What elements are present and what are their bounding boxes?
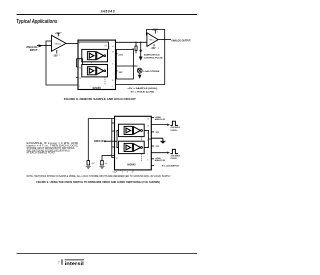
svg-text:IH5043: IH5043 (101, 9, 115, 13)
svg-text:1: 1 (79, 43, 80, 45)
svg-text:IH5043: IH5043 (127, 163, 136, 166)
node ANALOG INPUT label (26, 45, 38, 52)
pin numbers (U3) (116, 119, 150, 162)
svg-text:10: 10 (116, 158, 118, 160)
wire left rail (112, 119, 115, 158)
video out arrow (151, 138, 166, 144)
power +15V (U1) (55, 32, 62, 36)
footer intersil logo (65, 260, 84, 266)
svg-text:13: 13 (147, 126, 149, 128)
wire internal input routing (U2) (78, 42, 109, 49)
pin 14 wire to A1 (116, 41, 147, 43)
svg-text:HA51: HA51 (149, 38, 153, 41)
analog switch U2 IH5043 box (78, 40, 116, 89)
bottom pin row (U3) (113, 172, 134, 174)
svg-text:CONTROL PULSE: CONTROL PULSE (144, 57, 163, 59)
svg-text:-15V: -15V (118, 72, 123, 74)
dashed internal strobe line (U3) (141, 137, 143, 161)
op-amp U1 (52, 35, 67, 51)
svg-text:4: 4 (158, 48, 159, 50)
wire U1 output to switch box (66, 43, 78, 45)
svg-text:Typical Applications: Typical Applications (16, 19, 57, 25)
svg-text:7: 7 (61, 32, 62, 34)
pin label +V analog in (bottom) (151, 157, 165, 162)
divider network R3 (100, 155, 115, 168)
svg-text:ANALOG IN: ANALOG IN (155, 118, 166, 121)
pin numbers (U2) (79, 43, 114, 89)
pin stub NC switch (151, 165, 154, 167)
switch channel 1 (U2) (82, 49, 108, 61)
svg-text:0.1μF: 0.1μF (113, 172, 119, 174)
svg-text:0V = HOLD (LOW): 0V = HOLD (LOW) (131, 92, 155, 94)
pulse waveform B (167, 149, 178, 154)
power +15V (A1) (152, 29, 158, 34)
wire output feedback down (116, 40, 165, 85)
svg-text:INPUT: INPUT (30, 48, 38, 52)
svg-text:ANALOG OUTPUT: ANALOG OUTPUT (171, 39, 191, 42)
svg-text:+5V/0V SAMPLE: +5V/0V SAMPLE (170, 126, 180, 129)
wire sample control B (151, 152, 168, 154)
svg-text:7: 7 (58, 261, 60, 265)
svg-text:LOAD STROBE: LOAD STROBE (143, 70, 159, 73)
svg-text:+15V: +15V (118, 55, 124, 57)
svg-text:+5V: +5V (91, 163, 95, 165)
svg-text:CONTROL: CONTROL (170, 130, 177, 132)
svg-text:intersil: intersil (65, 261, 84, 266)
svg-text:HA5110: HA5110 (55, 42, 61, 45)
svg-text:CONTROL: CONTROL (170, 158, 177, 160)
svg-text:14: 14 (112, 46, 114, 48)
svg-text:13: 13 (112, 52, 114, 54)
sample/hold control pulse input (139, 42, 143, 61)
wire internal video split (U3) (115, 130, 119, 147)
svg-text:11: 11 (112, 80, 114, 82)
svg-text:6: 6 (112, 86, 113, 88)
svg-text:FIGURE 8. REMOTE SAMPLE AND HO: FIGURE 8. REMOTE SAMPLE AND HOLD CIRCUIT (64, 97, 136, 101)
svg-text:4: 4 (147, 154, 148, 156)
resistor R1 1k (132, 42, 137, 54)
load strobe source B1 (137, 68, 142, 79)
svg-text:+5V = SAMPLE (HIGH): +5V = SAMPLE (HIGH) (127, 87, 157, 90)
svg-text:-15V: -15V (155, 132, 160, 134)
svg-text:6: 6 (147, 160, 148, 162)
svg-text:10: 10 (79, 78, 81, 80)
svg-text:4: 4 (122, 172, 123, 174)
svg-text:7: 7 (79, 86, 80, 88)
pulse waveform A (167, 121, 178, 126)
header rule (17, 14, 197, 16)
svg-text:15: 15 (79, 68, 81, 70)
switch channel 1 (U3) (119, 124, 145, 136)
svg-text:12: 12 (132, 172, 134, 174)
node input junction (45, 45, 46, 46)
wire input (37, 45, 52, 47)
svg-text:7: 7 (157, 32, 158, 34)
wire A1 feedback (147, 30, 165, 40)
wire jumper to noninverting input (46, 41, 52, 46)
wire top left input (88, 118, 114, 120)
node VIDEO IN (94, 140, 104, 143)
svg-text:2: 2 (116, 131, 117, 133)
wire A1 output (158, 39, 171, 41)
footer divider (61, 259, 63, 265)
svg-text:EXAMPLE: IF tON(SW) = 1 kHz,: EXAMPLE: IF tON(SW) = 1 kHz, AND (27, 142, 79, 145)
svg-text:4: 4 (59, 54, 60, 56)
pin label -15V (U3 a) (151, 132, 159, 134)
pin stub v+ (116, 53, 118, 55)
node output junction (164, 39, 165, 40)
svg-text:0V: 0V (105, 163, 108, 165)
header part number IH5043 (101, 9, 115, 13)
power -15V (U1) (53, 50, 60, 58)
svg-text:-15V: -15V (53, 55, 58, 58)
svg-text:SAMPLE/HOLD: SAMPLE/HOLD (144, 53, 160, 56)
switch channel 2 (U2) (82, 65, 108, 77)
wire input down to bottom bus (46, 46, 78, 86)
svg-text:3: 3 (112, 64, 113, 66)
pin stub v- (116, 70, 118, 72)
svg-text:14: 14 (147, 119, 149, 121)
pin label +V analog in (top) (151, 116, 165, 121)
title Typical Applications (16, 19, 57, 25)
control boundary box (117, 49, 134, 79)
wire load strobe (116, 65, 138, 67)
svg-text:8: 8 (147, 140, 148, 142)
wire video in (104, 140, 115, 142)
pin stub rail taps (112, 123, 115, 147)
wire internal mix outputs (U3) (144, 130, 151, 147)
dashed strobe lines (U2) (104, 77, 106, 85)
svg-text:NOTE: SWITCHES SHOWN IN SAMPLE: NOTE: SWITCHES SHOWN IN SAMPLE MODE; ALL… (27, 175, 172, 178)
power -15V (A1) (151, 44, 159, 50)
pin stubs left (U2) (76, 59, 78, 78)
svg-text:-15V: -15V (151, 47, 156, 50)
svg-text:2: 2 (79, 59, 80, 61)
wire internal ch2 routing (U2) (78, 59, 83, 65)
label sample control A (170, 126, 180, 132)
note +5V sample (127, 87, 157, 94)
svg-text:5 6: 5 6 (98, 87, 100, 89)
svg-text:-15V: -15V (155, 146, 160, 148)
svg-text:15: 15 (116, 147, 118, 149)
svg-text:1: 1 (116, 119, 117, 121)
svg-text:FIGURE 9. USING THE CMOS SWITC: FIGURE 9. USING THE CMOS SWITCH TO DRIVE… (36, 180, 160, 184)
svg-text:AT EACH SAMPLE POINT.: AT EACH SAMPLE POINT. (27, 152, 56, 155)
analog switch U3 IH5043 box (115, 116, 152, 170)
op-amp A1 (147, 33, 158, 47)
label sample hold control (144, 53, 163, 59)
svg-text:11: 11 (147, 147, 149, 149)
svg-text:5: 5 (127, 172, 128, 174)
wire sample control A (151, 124, 168, 126)
svg-text:3: 3 (147, 133, 148, 135)
svg-text:VIDEO IN: VIDEO IN (94, 140, 104, 143)
footer rule (17, 253, 197, 255)
switch channel 2 (U3) (119, 141, 145, 153)
svg-text:+15V: +15V (55, 32, 61, 35)
svg-text:N.C. (CH) SWITCH: N.C. (CH) SWITCH (162, 166, 180, 168)
svg-text:PR: PR (105, 46, 108, 48)
svg-text:+5V/0V SAMPLE: +5V/0V SAMPLE (170, 154, 180, 157)
label sample control B (170, 154, 180, 160)
example text block (27, 142, 79, 155)
divider network R2 (86, 119, 95, 169)
svg-text:ANALOG IN: ANALOG IN (155, 159, 166, 162)
pin label -15V (U3 b) (151, 146, 159, 148)
